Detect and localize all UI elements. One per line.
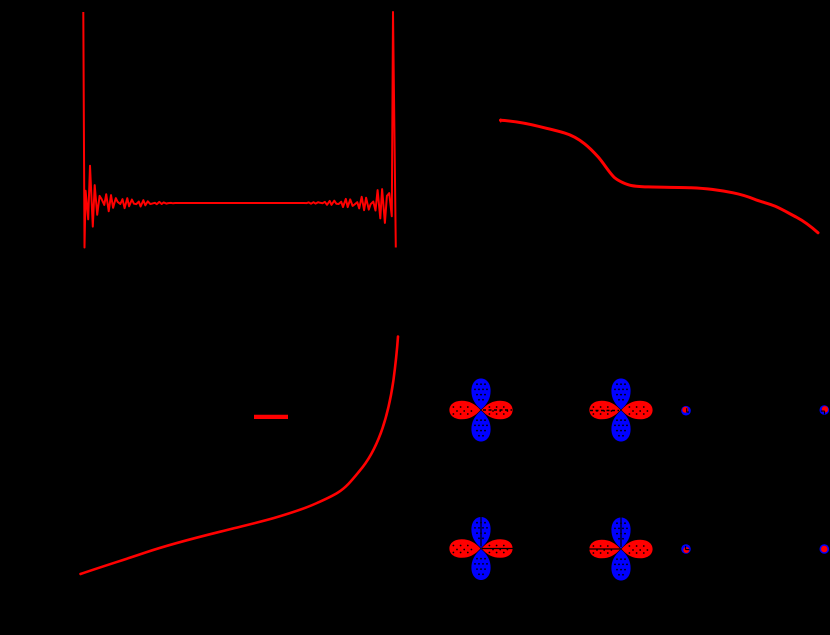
panel 3 legend line sample <box>254 415 288 419</box>
red lobe right <box>482 539 513 558</box>
small orbital blob B3 <box>681 544 691 554</box>
axis lines O3 <box>481 517 514 549</box>
panel 2 start tick <box>500 119 502 123</box>
dashed axis line O2 <box>590 410 619 412</box>
small orbital blob B2 <box>820 405 830 415</box>
speckle dots <box>453 522 509 575</box>
blue lobe top <box>611 518 630 549</box>
orbital O4 (row2 col2) <box>588 518 653 581</box>
blue lobe bottom <box>471 411 490 442</box>
panel 1 curve: band-edge spikes with ringing <box>83 12 396 248</box>
red lobe left <box>589 540 620 559</box>
speckle dots <box>593 522 649 575</box>
orbital O3 (row2 col1) <box>449 517 514 580</box>
panel 3 curve: rising divergent curve <box>81 337 399 575</box>
dashed axis line O1 <box>483 409 512 411</box>
red lobe left <box>449 401 480 420</box>
orbital O2 (row1 col2) <box>589 379 652 442</box>
speckle dots <box>453 383 509 436</box>
blue lobe top <box>471 517 490 548</box>
blue lobe bottom <box>611 550 630 581</box>
blue lobe bottom <box>471 549 490 580</box>
red lobe left <box>589 401 620 420</box>
orbital O1 (row1 col1) <box>449 379 512 442</box>
red lobe right <box>622 540 653 559</box>
axis lines O4 <box>588 518 621 550</box>
panel 2 curve: descending dispersion curve <box>501 120 819 233</box>
small orbital blob B1 <box>681 406 691 416</box>
small orbital blob B4 <box>820 544 830 554</box>
red lobe right <box>622 401 653 420</box>
blue lobe bottom <box>611 411 630 442</box>
blue lobe top <box>471 379 490 410</box>
speckle dots <box>593 383 649 436</box>
blue lobe top <box>611 379 630 410</box>
red lobe left <box>449 539 480 558</box>
red lobe right <box>482 401 513 420</box>
